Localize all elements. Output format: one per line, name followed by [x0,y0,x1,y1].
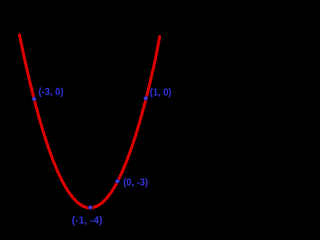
point (1, 0) [143,95,149,101]
svg-text:(0, -3): (0, -3) [123,177,148,188]
svg-text:(1, 0): (1, 0) [150,88,172,99]
svg-text:(-3, 0): (-3, 0) [39,87,64,98]
graph of parabola y = x^2 + 2x - 3 on black background [0,0,200,232]
point (-3, 0) [31,96,37,102]
point (-1, -4) vertex [88,205,94,211]
svg-text:(-1, -4): (-1, -4) [72,215,103,226]
parabola curve [20,35,160,208]
point (0, -3) [115,178,121,184]
